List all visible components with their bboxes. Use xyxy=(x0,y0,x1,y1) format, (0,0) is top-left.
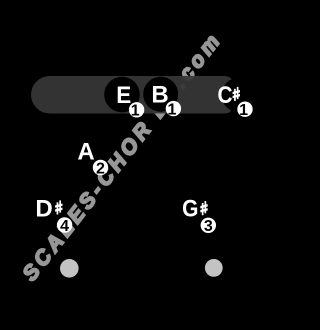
note label D# xyxy=(35,196,62,223)
open string dot left xyxy=(60,259,79,278)
open string dot right xyxy=(205,259,223,277)
svg-text:1: 1 xyxy=(168,101,177,118)
finger 4 on D# xyxy=(57,217,72,235)
svg-text:1: 1 xyxy=(239,102,248,119)
note label G# xyxy=(182,196,208,223)
note circle C# xyxy=(222,78,257,113)
finger 1 on B xyxy=(166,101,181,119)
svg-text:1: 1 xyxy=(131,103,140,120)
barre (fret bar) xyxy=(31,76,233,114)
svg-text:C: C xyxy=(218,82,233,109)
finger 1 on C# xyxy=(237,102,252,120)
svg-text:A: A xyxy=(77,138,94,165)
note label C# xyxy=(218,82,241,109)
svg-text:4: 4 xyxy=(60,218,69,235)
finger 3 on G# xyxy=(201,218,216,236)
svg-text:D: D xyxy=(35,196,52,223)
svg-text:2: 2 xyxy=(96,160,105,177)
note circle E xyxy=(104,77,140,113)
note circle B xyxy=(143,77,178,112)
finger 2 on A xyxy=(93,160,108,178)
svg-text:B: B xyxy=(151,82,168,109)
svg-text:E: E xyxy=(116,82,131,109)
svg-text:G: G xyxy=(182,196,198,223)
svg-text:3: 3 xyxy=(204,218,213,235)
finger 1 on E xyxy=(129,102,144,119)
